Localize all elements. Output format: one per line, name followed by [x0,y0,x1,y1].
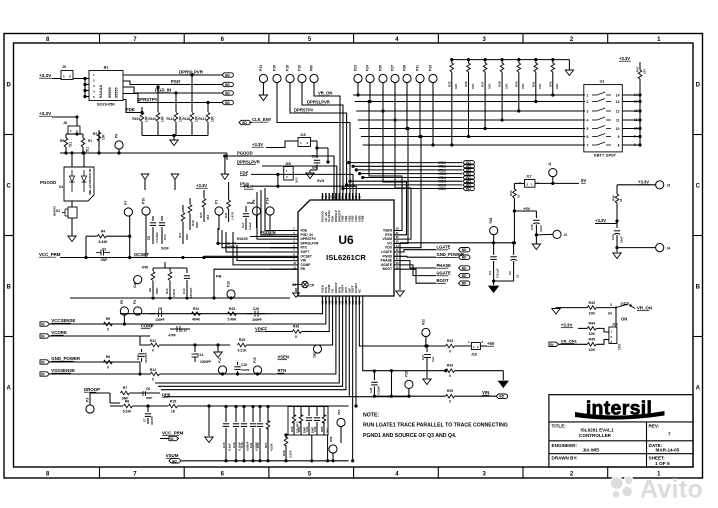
svg-text:1000PF: 1000PF [200,360,211,364]
svg-text:2: 2 [587,100,589,104]
wire fde row [251,174,353,200]
svg-text:R6: R6 [106,355,110,359]
svg-text:VDIFF: VDIFF [255,327,268,332]
resistor R43 10K [556,307,587,309]
capacitor C13 1000PF [186,268,188,273]
capacitor C30 10uF [616,221,618,228]
wire bus stub right [226,153,228,160]
svg-text:C18: C18 [241,363,247,367]
svg-text:C: C [7,183,12,189]
testpoint P1 [215,207,223,215]
capacitor C7 330PF [147,406,149,412]
svg-text:100: 100 [643,69,647,74]
svg-text:P12: P12 [227,281,231,287]
svg-text:R37: R37 [481,81,485,87]
svg-text:BD: BD [462,282,467,286]
svg-text:R4: R4 [101,230,105,234]
svg-text:10: 10 [619,198,623,202]
svg-text:0: 0 [152,378,154,382]
net connector BD [222,73,233,77]
svg-text:C21: C21 [249,442,253,448]
svg-text:464K: 464K [192,318,201,322]
svg-text:BD: BD [499,395,504,399]
svg-text:11: 11 [634,118,638,122]
svg-text:J4: J4 [667,247,671,251]
resistor R31 DNP [300,407,302,417]
svg-text:511: 511 [86,147,90,152]
svg-text:DNP: DNP [101,258,109,262]
resistor R8 DNP [152,268,154,271]
svg-text:9: 9 [618,135,620,139]
net connector BD [239,120,250,124]
wires B1 to net arrows [123,74,222,76]
testpoint P27 [391,74,399,82]
testpoint P14 [266,207,274,215]
svg-text:VR_TT: VR_TT [225,242,237,246]
wire C35 to J2 [536,233,553,236]
svg-text:R15: R15 [170,400,176,404]
svg-text:4: 4 [587,119,589,123]
capacitor C35 10uF [535,211,537,218]
svg-text:10K: 10K [589,332,596,336]
svg-text:R42: R42 [548,81,552,87]
svg-text:10K: 10K [487,83,491,89]
svg-text:PGND1 AND SOURCE OF Q3 AND Q4.: PGND1 AND SOURCE OF Q3 AND Q4. [363,433,457,439]
testpoint P15b [273,74,281,82]
svg-text:R40: R40 [514,81,518,87]
testpoint P5 [120,307,128,315]
svg-text:P6: P6 [115,134,119,138]
svg-text:C35: C35 [530,224,534,230]
svg-text:10K: 10K [471,83,475,89]
svg-text:C30: C30 [611,234,615,240]
capacitor C4 0.01uF [493,243,495,255]
svg-text:FB: FB [301,267,306,271]
pullup resistor R110 10K [157,87,159,112]
testpoint P34 [490,227,498,235]
svg-text:R7: R7 [123,386,127,390]
pullup resistor R114 10K [175,93,177,112]
testpoint J3 [656,181,664,189]
svg-text:VR_ON1: VR_ON1 [561,338,578,343]
svg-text:13: 13 [634,100,638,104]
wire +3.3V to J9 [52,78,61,80]
svg-text:10: 10 [634,127,638,131]
svg-text:7: 7 [587,144,589,148]
svg-text:6: 6 [587,135,589,139]
net connector BD [496,394,507,398]
svg-text:C4: C4 [488,271,492,275]
svg-text:J18: J18 [471,353,477,357]
wire pgood row [223,156,334,200]
svg-text:J2: J2 [564,233,568,237]
capacitor C23 DNP [308,407,310,417]
wire vid bus lines [353,94,585,96]
svg-text:J19: J19 [612,323,618,327]
svg-text:R28: R28 [290,426,294,432]
resistor R10 464K [192,312,201,316]
svg-text:1K3: 1K3 [618,344,622,350]
svg-text:MAR-14-05: MAR-14-05 [656,448,680,453]
wire P7 to R4 [127,215,129,217]
net connector BD [222,91,233,95]
testpoint P23 [354,74,362,82]
svg-text:R35: R35 [447,389,453,393]
svg-text:P5: P5 [120,300,124,304]
wire U6 bottom pin stubs [322,296,324,305]
svg-text:10K: 10K [102,133,106,140]
sheet inner border [14,43,694,467]
svg-text:10K: 10K [161,115,165,122]
testpoint P9 [252,207,260,215]
svg-text:VSSSENSE: VSSSENSE [51,368,75,373]
svg-text:DNP: DNP [185,234,189,240]
wire fde-psi link [277,174,279,186]
resistor R46 10 [615,194,619,203]
ground [555,307,557,310]
svg-text:C7: C7 [143,418,147,422]
wire R50 to VDD rail [513,211,515,243]
svg-text:0.81K: 0.81K [172,288,176,297]
NTC sub-cluster box [288,407,328,436]
svg-text:VCORE: VCORE [51,330,67,335]
resistor R17 DNP [182,205,184,212]
svg-text:R36: R36 [464,81,468,87]
wire main 3.3V bus [60,152,227,154]
testpoint P33 [429,74,437,82]
testpoint J4 [656,244,664,252]
capacitor C10 DNP [161,216,163,221]
svg-text:DPRSTP#: DPRSTP# [294,108,314,113]
svg-text:P27: P27 [391,65,395,71]
capacitor C18 100PF [237,362,239,365]
resistor R33 0 [446,344,455,348]
svg-text:Avito: Avito [640,476,703,504]
svg-text:R12: R12 [150,368,156,372]
wire vsum bottom bus [182,460,349,462]
svg-text:C6: C6 [146,387,150,391]
svg-text:511: 511 [69,142,73,147]
svg-text:1K3: 1K3 [295,177,299,183]
svg-text:ISL6261 EVAL1: ISL6261 EVAL1 [580,428,614,433]
capacitor C22 [259,407,261,423]
svg-text:C29: C29 [313,426,317,432]
sense line VCORE [40,334,50,338]
ground [568,60,570,70]
capacitor C2 10uF [513,243,515,255]
svg-text:R114: R114 [167,117,175,121]
svg-text:FDE: FDE [240,171,249,176]
resistor R13 0.81K [169,268,171,271]
svg-text:1K: 1K [171,410,176,414]
svg-text:R47: R47 [636,66,640,72]
svg-text:D1: D1 [59,185,63,189]
svg-text:0: 0 [295,335,297,339]
pullup resistor R121 10K [207,103,209,113]
resistor R35 0 [446,394,455,398]
svg-text:C: C [696,183,701,189]
wire resistor top rail [452,59,570,61]
svg-text:R5: R5 [106,317,110,321]
svg-text:10K: 10K [589,348,596,352]
testpoint J2 [553,230,561,238]
svg-text:0: 0 [152,349,154,353]
capacitor C27 1uF [426,346,428,352]
svg-text:BD: BD [225,74,230,78]
svg-text:10: 10 [516,274,520,278]
testpoint TRD [313,345,321,353]
resistor R23 5.46K [228,312,237,316]
svg-text:PGOOD: PGOOD [237,151,253,156]
svg-text:10: 10 [517,194,521,198]
vid connectors [463,160,474,164]
wire J9 to B1 [73,78,89,80]
pullup resistor R38 10K [501,60,503,63]
svg-text:B1: B1 [104,66,109,70]
svg-text:0AAAA: 0AAAA [99,85,103,98]
svg-text:R38: R38 [498,81,502,87]
svg-text:+5V: +5V [523,206,531,211]
svg-text:R118: R118 [183,117,191,121]
svg-text:DPRSLPVR: DPRSLPVR [307,100,330,105]
wires D1 to bus [71,153,73,167]
svg-text:P28: P28 [403,65,407,71]
ground arm [502,371,504,380]
capacitor C8 150PF [150,313,155,315]
wire comp row [120,313,265,315]
resistor R7 DNP [121,391,130,395]
svg-text:DNP: DNP [146,396,152,400]
svg-text:U1: U1 [600,80,605,84]
wire dprslpvr row [262,165,288,168]
svg-text:+3.3V: +3.3V [619,56,630,61]
wire U6 top pin stubs [322,193,324,200]
wire vin rail left [374,395,409,397]
wire right staircase verticals [367,100,370,103]
svg-text:DNP: DNP [195,222,199,228]
wire DPRSLPVR route [302,82,343,200]
svg-text:11: 11 [616,119,620,123]
svg-text:D: D [7,82,12,88]
svg-text:C9: C9 [147,236,151,240]
wire resistor common bus [142,135,208,137]
sense line VCCSENSE [40,322,50,326]
pullup resistor R41 10K [535,60,537,63]
ground under U6 pins [399,243,401,290]
svg-text:P11: P11 [218,357,222,363]
svg-text:R50: R50 [509,190,513,196]
wire vid bundle rows [349,162,462,164]
svg-text:UGATE: UGATE [437,271,452,276]
wire switch common rail [639,87,641,145]
svg-text:3.37K: 3.37K [289,449,293,458]
svg-text:4.53K: 4.53K [270,442,274,451]
svg-text:R8: R8 [125,400,129,404]
svg-text:BD: BD [462,256,467,260]
testpoint P29 [405,380,413,388]
svg-text:100PF: 100PF [241,368,250,372]
svg-text:BD: BD [172,459,177,463]
power arrow 3v3 [141,174,149,180]
pullup resistor R118 10K [191,75,193,112]
testpoint P3 [86,405,94,413]
svg-text:12: 12 [634,109,638,113]
testpoint P16 [286,74,294,82]
pullup resistor R42 10K [552,60,554,63]
wire bottom bundle routes [265,305,323,314]
svg-text:S4: S4 [608,312,612,316]
svg-text:1: 1 [587,94,589,98]
svg-text:P3: P3 [86,398,90,402]
svg-text:REV:: REV: [649,424,660,429]
svg-text:R1: R1 [88,139,92,143]
testpoint P32 [422,328,430,336]
svg-text:CP: CP [310,284,315,288]
wire CLK_EN route [277,82,350,200]
svg-text:P10: P10 [142,198,146,204]
svg-text:0.1uF: 0.1uF [248,222,252,230]
svg-text:C20: C20 [253,307,259,311]
testpoint P28 [403,74,411,82]
svg-text:BD: BD [466,187,471,191]
wire comp rail [70,297,290,299]
wire FDE [123,100,142,113]
ground [295,288,297,292]
svg-text:330PF: 330PF [150,416,154,425]
svg-text:R8: R8 [148,288,152,292]
svg-text:BD: BD [462,274,467,278]
net connector BD [459,273,470,277]
svg-text:R34: R34 [447,364,453,368]
svg-text:P14: P14 [266,198,270,204]
resistor R44 10K [587,327,596,331]
resistor R28 10K NTC [293,407,295,417]
ground [493,281,495,285]
svg-text:8.34K: 8.34K [98,240,108,244]
capacitor C12 47PF [170,328,190,330]
svg-text:C16: C16 [232,442,236,448]
svg-text:5.46K: 5.46K [227,318,237,322]
wire droop row [90,392,110,394]
svg-text:SO29-05K: SO29-05K [97,103,115,107]
resistor R11 0 [140,335,150,337]
svg-text:SML-LXT0805IW-TR: SML-LXT0805IW-TR [88,169,92,195]
svg-text:13: 13 [616,100,620,104]
svg-text:12: 12 [616,110,620,114]
frame column ticks [99,34,101,44]
svg-text:VR_ON: VR_ON [318,91,332,96]
resistor R15 1K [169,404,178,408]
svg-text:VR_ON: VR_ON [637,306,652,311]
svg-text:10K: 10K [538,83,542,89]
net connector BD [459,281,470,285]
svg-text:0: 0 [107,366,109,370]
svg-text:BD: BD [225,83,230,87]
testpoint P19 [298,74,306,82]
svg-text:C13: C13 [182,288,186,294]
svg-text:390PF: 390PF [252,318,261,322]
ground [217,345,219,352]
testpoint P7 [124,208,132,216]
svg-text:VSEN: VSEN [278,355,289,360]
wire J18 to bundle [288,166,337,200]
testpoint P13 [259,74,267,82]
svg-text:20A: 20A [325,428,329,433]
net connector BD [169,459,180,463]
svg-text:R11: R11 [150,339,156,343]
capacitor C15 0.1uF [225,407,227,423]
svg-text:J9: J9 [62,65,66,69]
svg-text:NOTE:: NOTE: [363,413,379,419]
svg-text:R43: R43 [589,301,596,305]
svg-text:25A: 25A [337,409,341,415]
svg-text:R25: R25 [239,338,245,342]
svg-text:R29: R29 [282,450,286,456]
svg-text:+3.3V: +3.3V [638,180,649,185]
svg-text:C8: C8 [158,307,162,311]
svg-text:ENGINEER:: ENGINEER: [552,443,578,448]
svg-text:P29: P29 [405,371,409,377]
svg-text:10uF: 10uF [620,236,624,243]
svg-text:FDE: FDE [126,107,135,112]
svg-text:VID6: VID6 [438,187,446,191]
svg-text:R31: R31 [297,426,301,432]
testpoint P12 [230,297,232,299]
svg-text:10K: 10K [504,83,508,89]
wire bus junction dots [450,143,453,146]
svg-text:P15: P15 [273,65,277,71]
transistor Q1 [71,201,73,207]
wire VR_ON route [314,82,340,200]
svg-text:A1: A1 [292,283,296,287]
svg-text:OCSET: OCSET [134,252,149,257]
resistor R6 0 [104,360,113,364]
ground [306,173,314,179]
svg-text:14: 14 [634,93,638,97]
svg-text:5V: 5V [581,178,586,183]
svg-text:R3105: R3105 [237,237,248,241]
ground [208,406,210,436]
net connector IN [549,342,559,346]
wire VCC_PRM-OCSET [60,257,298,259]
pullup resistor R47 10 [638,70,642,79]
svg-text:0.015uF: 0.015uF [155,232,159,243]
testpoint P15 [253,366,261,374]
svg-text:+3.3V: +3.3V [561,323,573,328]
svg-text:P60: P60 [310,65,314,71]
svg-text:R41: R41 [531,81,535,87]
svg-text:R35: R35 [447,81,451,87]
testpoint J1 [549,169,557,177]
resistor R5 0 [104,322,113,326]
capacitor C21 A30BF [252,407,254,423]
svg-text:10K: 10K [521,83,525,89]
resistor R20 45B [203,190,205,198]
capacitor C14 1000PF [194,345,196,352]
svg-text:5: 5 [587,127,589,131]
grounds below U6 [338,382,340,384]
svg-text:1000PF: 1000PF [189,287,193,298]
svg-text:SOF: SOF [161,247,169,251]
wire PGD_IN row [250,236,298,238]
power arrow pgood pullup [221,174,229,180]
svg-text:TRD: TRD [313,351,317,358]
op-amp U6 ISL6261CR controller [298,200,394,296]
wire +3.3V rail [52,116,77,118]
pullup resistor R35 10K [451,60,453,63]
pullup resistor R40 10K [518,60,520,63]
wire bottom bundle verticals down [352,305,354,461]
